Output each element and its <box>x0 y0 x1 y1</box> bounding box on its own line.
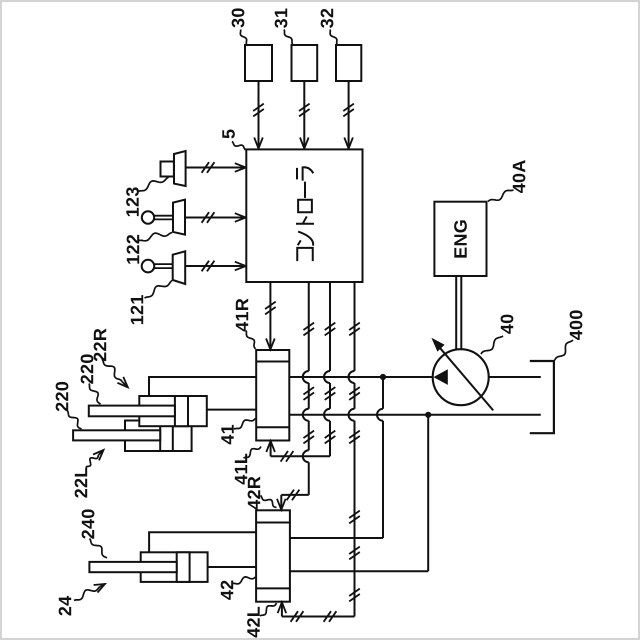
controller box 5 <box>246 149 362 282</box>
signal line 121 to controller <box>185 261 246 272</box>
label 240 <box>82 509 107 558</box>
sensor box 32 <box>336 45 361 81</box>
label 40 <box>481 315 513 354</box>
pedal device 123 <box>161 151 186 186</box>
cylinder 24 rod <box>89 562 176 572</box>
label 30 <box>232 8 247 44</box>
supply line A valve41 to pump <box>289 376 432 378</box>
label 41R <box>236 299 256 349</box>
pipe valve41 to cyl22R cap side <box>149 377 256 395</box>
pipe valve42 to cyl24 cap side <box>149 532 256 551</box>
signal line 32 to controller <box>343 81 354 149</box>
cylinder 24 piston <box>177 552 190 582</box>
signal line 2 controller to valve42R pilot <box>277 282 314 510</box>
label 121 <box>131 281 172 325</box>
cylinder 22R barrel <box>139 396 207 426</box>
tank 400 <box>530 361 554 433</box>
label 31 <box>275 9 293 45</box>
return branch from valve42 <box>290 415 428 572</box>
label 42L <box>247 603 276 638</box>
cylinder 22R piston <box>175 396 188 426</box>
cylinder 24 barrel <box>141 552 208 582</box>
cylinder 22L barrel <box>125 421 192 452</box>
label 24 <box>59 584 105 616</box>
pump 40 <box>431 338 493 411</box>
label 42 <box>221 577 256 600</box>
label 400 <box>555 310 583 360</box>
cylinder 22L rod <box>73 430 160 440</box>
valve 41 body <box>256 350 289 441</box>
pipe valve42 to cyl24 rod side <box>208 566 257 568</box>
engine box ENG <box>434 202 486 276</box>
valve 42 body <box>256 510 290 601</box>
signal line 122 to controller <box>185 212 246 223</box>
label 122 <box>127 233 172 264</box>
label 41 <box>221 418 255 444</box>
label 123 <box>126 177 168 216</box>
lever device 122 <box>142 200 185 235</box>
signal line 4 controller to valve42L pilot <box>278 282 360 622</box>
label 41L <box>235 447 261 485</box>
signal line 3 controller to valve41L pilot <box>266 282 335 462</box>
cylinder 22L piston <box>160 421 173 452</box>
pipe pump to tank <box>489 376 541 378</box>
label 22L <box>75 450 104 498</box>
junction dot A <box>380 374 386 380</box>
supply branch to valve42 <box>290 377 383 538</box>
signal line 1 controller to valve41R pilot <box>265 282 276 350</box>
label 220 upper <box>81 354 101 404</box>
drive shaft ENG to pump <box>456 276 461 350</box>
signal line 31 to controller <box>299 81 310 149</box>
label 40A <box>488 160 525 201</box>
pipe valve41 to cyl22R rod side <box>207 409 256 411</box>
label 220 lower <box>56 382 82 429</box>
label 5 <box>222 130 245 150</box>
sensor box 30 <box>245 45 272 81</box>
controller text (katakana kontoro-ra) <box>296 167 314 261</box>
cylinder 22R rod <box>89 406 175 417</box>
return line B valve41 to tank <box>289 414 541 416</box>
signal line 30 to controller <box>253 81 264 149</box>
sensor box 31 <box>292 45 318 81</box>
label 32 <box>321 9 337 44</box>
lever device 121 <box>142 251 186 284</box>
junction dot B <box>425 412 431 418</box>
signal line 123 to controller <box>186 162 246 173</box>
label 22R <box>94 329 128 388</box>
label 42R <box>248 477 277 510</box>
